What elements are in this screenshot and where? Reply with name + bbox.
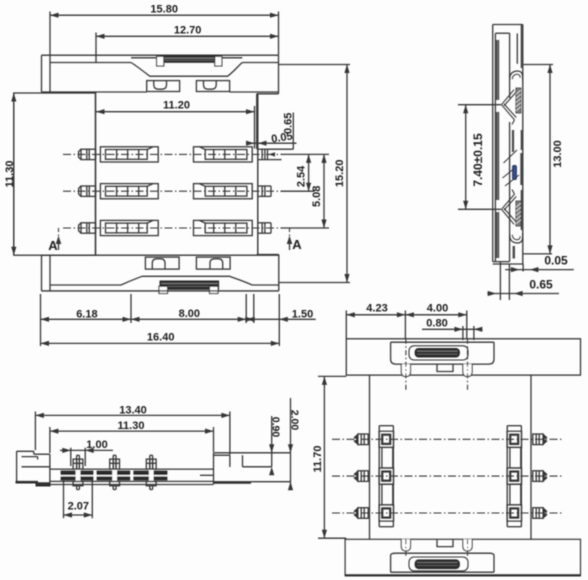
dim 13.00 (524, 64, 554, 66)
row 2 right pad (194, 184, 253, 199)
middle tab (437, 364, 453, 371)
inner tray bottom (391, 553, 494, 572)
row 1 right pad (194, 147, 253, 162)
svg-text:4.00: 4.00 (427, 303, 448, 315)
svg-text:16.40: 16.40 (147, 332, 175, 344)
shell dome (card guide) top (131, 63, 242, 77)
row 1 left pin (81, 149, 96, 159)
middle tab bottom (437, 539, 453, 546)
bottom strip clip left (159, 286, 168, 293)
bottom view row 1 pins (358, 434, 368, 445)
bottom view row 2 pins (358, 471, 368, 482)
bottom band right step (257, 254, 279, 256)
bottom view row 3 centerline (332, 512, 563, 514)
svg-text:2.07: 2.07 (68, 501, 89, 513)
dim 13.40 (35, 414, 230, 416)
dim 2.07 (63, 480, 65, 519)
bottom view row 2 pads (379, 468, 394, 484)
svg-text:15.20: 15.20 (334, 160, 346, 188)
dim 15.80 top (50, 14, 279, 16)
dim 11.70 (318, 375, 346, 377)
spring contact bottom (502, 209, 515, 224)
svg-text:6.18: 6.18 (76, 308, 97, 320)
bottom view row 3 pads (379, 505, 394, 521)
dim 4.00 (405, 314, 466, 316)
dims 6.18 / 8.00 / 1.50 (40, 294, 42, 346)
bottom view row 3 pins (358, 508, 368, 519)
svg-text:A: A (292, 237, 302, 252)
dim 7.40±0.15 (458, 104, 501, 106)
slot centerlines bottom (405, 539, 407, 558)
left stopper block rectangle (14, 93, 96, 255)
svg-text:0.05: 0.05 (544, 254, 568, 268)
svg-text:1.00: 1.00 (86, 439, 107, 451)
svg-text:15.80: 15.80 (150, 3, 178, 15)
dim 4.23 (346, 314, 405, 316)
svg-text:13.40: 13.40 (119, 404, 147, 416)
dim 15.20 far right (279, 64, 351, 66)
strip end clip left (157, 56, 164, 66)
spring contact top (502, 90, 515, 105)
capsule pocket bottom (409, 557, 468, 571)
top band outer edge (42, 54, 279, 56)
bottom band dome (121, 276, 252, 285)
row 3 left pad (100, 220, 158, 235)
row 2 left pad (100, 184, 158, 199)
body bar (50, 468, 214, 470)
body side edges (95, 92, 97, 255)
solder strips on bar (61, 471, 93, 480)
bottom hatched strip (160, 281, 219, 289)
pin 1 front (76, 455, 78, 469)
row 2 right pin (258, 185, 271, 187)
hatched contact strip top (160, 56, 219, 63)
column inner line top (516, 33, 518, 63)
svg-text:11.20: 11.20 (163, 99, 190, 111)
dim 12.70 (96, 35, 279, 37)
svg-text:11.70: 11.70 (312, 446, 324, 473)
svg-text:7.40±0.15: 7.40±0.15 (471, 133, 485, 187)
bottom view row 2 centerline (332, 475, 563, 477)
left end block (16, 451, 18, 481)
svg-text:8.00: 8.00 (179, 308, 200, 320)
strip end clip right (215, 56, 222, 66)
dim 0.80 (422, 328, 481, 330)
svg-text:11.30: 11.30 (4, 161, 16, 188)
dim 5.08 right (281, 227, 330, 229)
pin 3 front (149, 455, 151, 469)
bottom view row 1 pads (379, 431, 394, 447)
row 1 left pad (100, 147, 158, 162)
bottom outer edge (42, 290, 279, 292)
svg-text:4.23: 4.23 (366, 303, 387, 315)
dim 0.65 side (487, 293, 559, 295)
bottom strip clip right (210, 286, 219, 293)
top band window left with U slot (147, 81, 180, 92)
dim 1.00 (60, 449, 113, 451)
U slot left (401, 364, 410, 377)
dim 11.20 (96, 111, 255, 113)
bottom band window right (196, 257, 230, 269)
contact row 2 centerline (63, 190, 281, 192)
shell dome top plate line (131, 57, 160, 59)
right step of shell (257, 93, 279, 95)
bottom band window left (145, 257, 179, 269)
dim 11.30 left (13, 93, 15, 255)
svg-text:2.54: 2.54 (295, 165, 307, 187)
blue highlighted contact (513, 166, 517, 180)
contact columns (378, 426, 380, 527)
hatched capsule (415, 349, 459, 358)
hatched capsule bottom (415, 560, 459, 569)
svg-text:1.50: 1.50 (292, 309, 313, 321)
row 3 right pin (258, 222, 271, 224)
svg-text:A: A (48, 238, 58, 253)
dim 2.00 (290, 398, 292, 453)
pin 2 front (112, 455, 114, 469)
bottom view row 1 centerline (332, 438, 563, 440)
row 3 right pad (194, 220, 253, 235)
U slot bottom-left (401, 539, 410, 551)
slot centerlines (405, 339, 407, 391)
dim 2.54 right (281, 153, 330, 155)
dim 0.05 with arrows (254, 106, 256, 149)
svg-text:13.00: 13.00 (552, 140, 564, 168)
side view top bar (493, 24, 523, 26)
top band inner line (50, 62, 131, 64)
row 1 right pin (258, 148, 268, 150)
svg-text:12.70: 12.70 (174, 24, 202, 36)
inner tray (391, 342, 494, 364)
row 2 left pin (81, 186, 96, 196)
bottom band top line (42, 254, 279, 256)
svg-text:0.65: 0.65 (529, 278, 553, 292)
svg-text:5.08: 5.08 (311, 186, 323, 207)
dim 0.05 side (499, 262, 501, 300)
dim 16.40 (41, 342, 280, 344)
bottom block of bottom view (345, 539, 580, 575)
dim 0.90 (271, 416, 273, 467)
middle contact parts (512, 130, 514, 152)
svg-text:0.90: 0.90 (270, 417, 282, 438)
top band bottom line (42, 91, 147, 93)
svg-text:11.30: 11.30 (118, 420, 145, 432)
dim 0.65 leader (pin width) (292, 113, 294, 150)
dim 11.30 bottom (50, 430, 214, 432)
bottom pin foot (513, 246, 515, 259)
svg-text:0.80: 0.80 (426, 318, 447, 330)
top band window right with U slot (196, 81, 229, 92)
row 3 left pin (81, 223, 96, 233)
side view bottoms (493, 261, 510, 263)
capsule pocket (409, 346, 468, 360)
right end block (213, 453, 215, 485)
top block of bottom view (346, 339, 580, 375)
central body sides (369, 375, 371, 539)
contact row 1 centerline (63, 153, 281, 155)
U slot bottom-right (463, 539, 472, 551)
contact strip edge-on (496, 40, 498, 100)
svg-text:2.00: 2.00 (289, 410, 301, 431)
side view main column (509, 33, 511, 98)
contact row 3 centerline (63, 227, 281, 229)
U slot right (463, 364, 472, 377)
